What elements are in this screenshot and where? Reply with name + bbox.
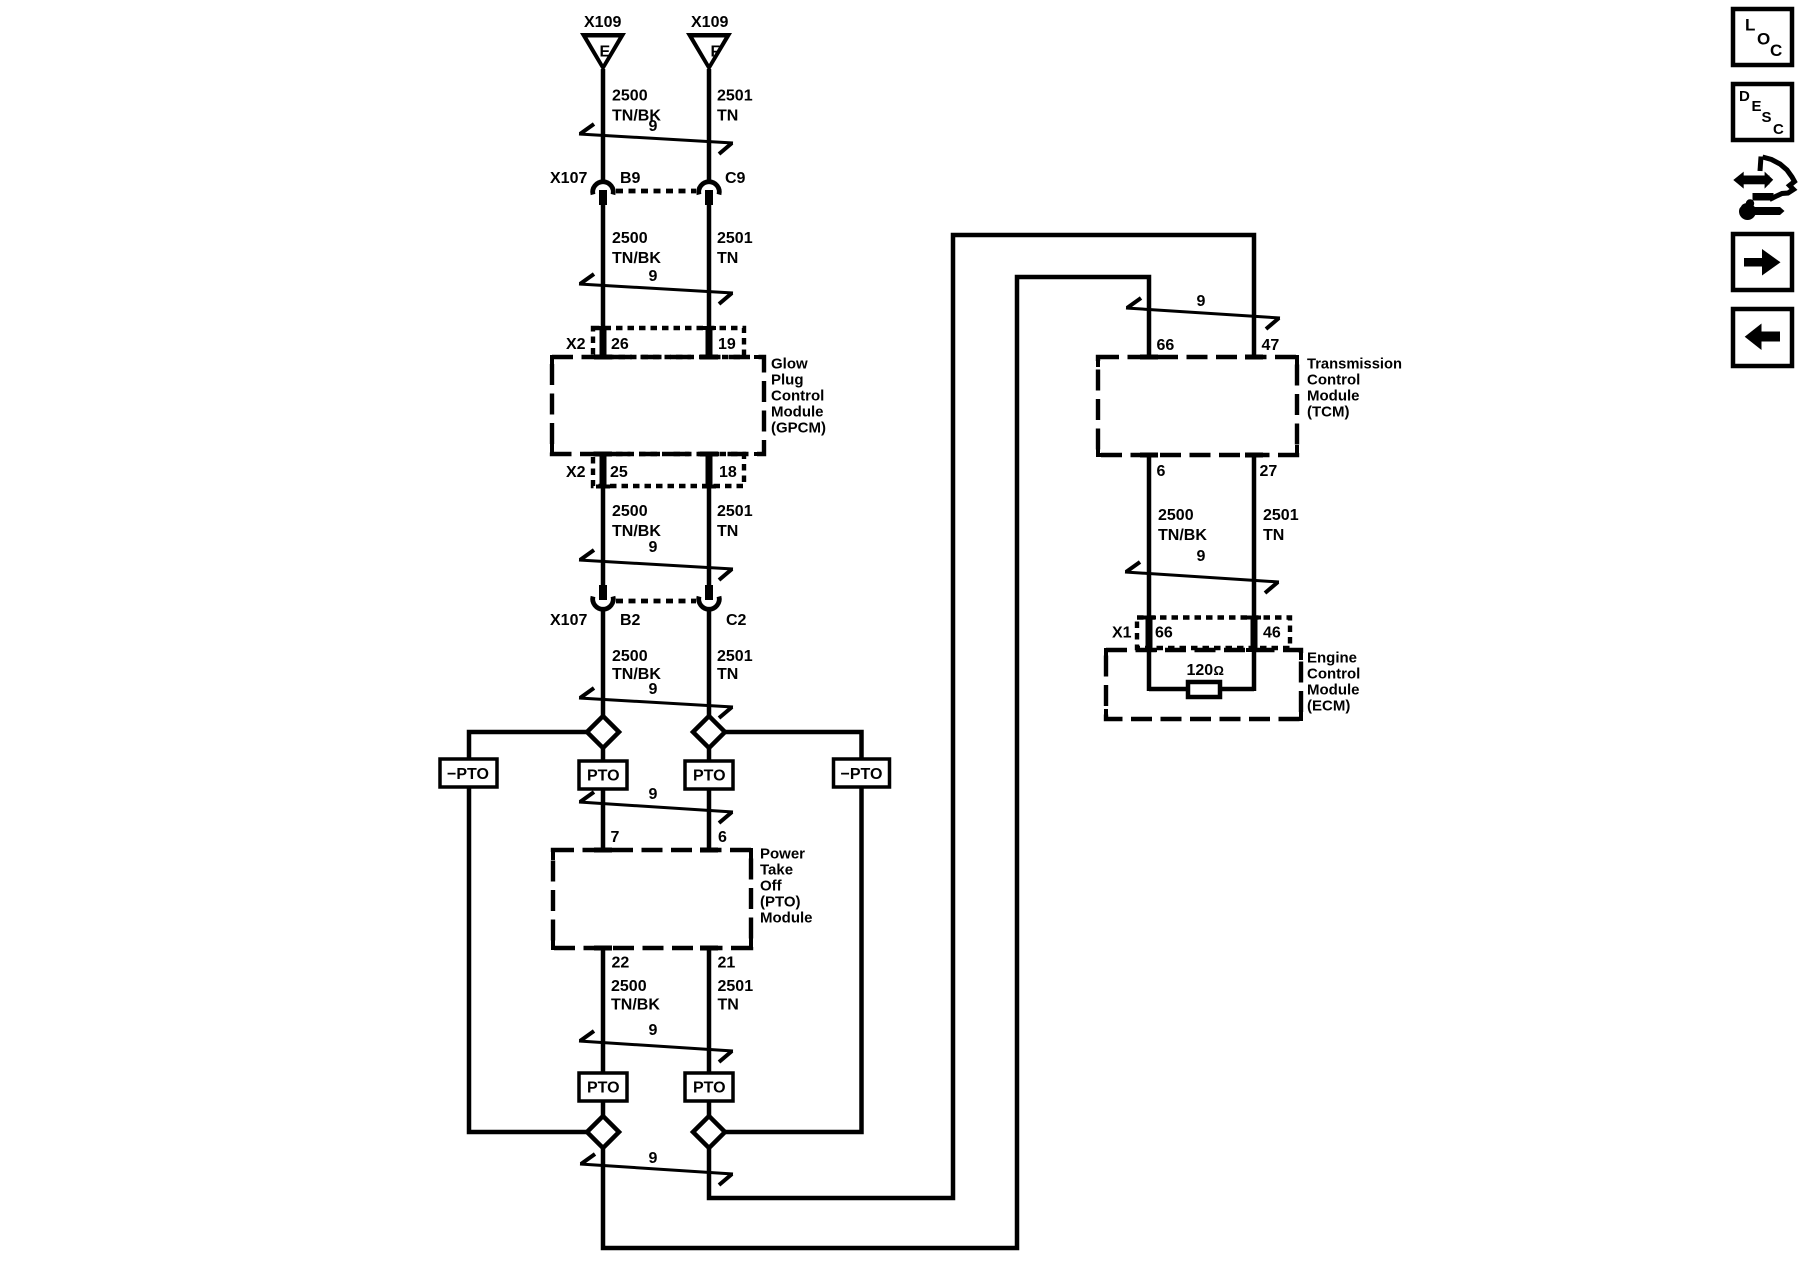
- wire: PTO box to PTO module pin 6: [707, 788, 712, 851]
- ECM corner marks: [1106, 650, 1301, 719]
- wire 2501 TN: PTO module pin 21 to lower PTO box: [707, 947, 712, 1074]
- connector X107-B2 socket arc: [593, 597, 614, 610]
- splice diamond: node S2 on 2501: [693, 716, 725, 748]
- tick: wire crossing GPCM pin box top (19): [702, 326, 716, 330]
- terminal T-bar GPCM pin 18: [700, 452, 718, 457]
- splice diamond: node S3 on 2500 lower: [587, 1116, 619, 1148]
- svg-text:X109: X109: [691, 14, 728, 31]
- twisted-pair symbol tp1: [579, 124, 733, 154]
- svg-text:PTO: PTO: [693, 1080, 726, 1097]
- svg-text:2501: 2501: [1263, 507, 1299, 524]
- svg-text:25: 25: [610, 464, 628, 481]
- svg-text:X109: X109: [584, 14, 621, 31]
- wire 2501 TN: X107-C2 to splice junction: [707, 609, 712, 717]
- wire: left splice to PTO switch box: [601, 747, 606, 762]
- svg-text:TN/BK: TN/BK: [611, 997, 660, 1014]
- GPCM corner marks: [552, 357, 764, 454]
- svg-text:Module: Module: [1307, 388, 1360, 405]
- wire pin stub: GPCM pin 26: [600, 328, 607, 357]
- tick: wire crossing ECM pin box top (66): [1142, 616, 1156, 620]
- svg-text:(ECM): (ECM): [1307, 698, 1350, 715]
- module box: Transmission Control Module (TCM): [1098, 357, 1297, 455]
- svg-text:27: 27: [1260, 463, 1278, 480]
- svg-text:C2: C2: [726, 612, 747, 629]
- wire 2501 TN: GPCM pin 18 to X107-C2: [707, 485, 712, 586]
- svg-text:2500: 2500: [611, 978, 647, 995]
- svg-text:Module: Module: [771, 404, 824, 421]
- icon jump/trace (double arrow, outline, wrench): [1731, 157, 1795, 221]
- svg-text:D: D: [1739, 88, 1750, 105]
- wire 2501 TN: X107-C9 to GPCM pin 19: [707, 205, 712, 329]
- svg-text:(TCM): (TCM): [1307, 404, 1349, 421]
- terminal T-bar TCM pin 27: [1245, 453, 1263, 458]
- icon box arrow right: [1733, 234, 1792, 290]
- wire 2500 TN/BK: X109-E to X107-B9: [601, 69, 606, 182]
- connector pin stub C9: [705, 190, 713, 205]
- wire 2501 TN: X109-F to X107-C9: [707, 69, 712, 182]
- twisted-pair symbol tp9: [1125, 562, 1279, 593]
- svg-text:L: L: [1745, 16, 1755, 35]
- wire 2500 TN/BK: X107-B2 to splice junction: [601, 609, 606, 717]
- svg-text:9: 9: [649, 681, 658, 698]
- svg-text:6: 6: [1157, 463, 1166, 480]
- svg-text:2500: 2500: [612, 88, 648, 105]
- icon box DESC: [1733, 84, 1792, 140]
- connector X107-B9 socket arc: [593, 182, 614, 195]
- twisted-pair symbol tp8: [1126, 298, 1280, 329]
- svg-text:X2: X2: [566, 464, 586, 481]
- wire pin stub: ECM pin 46: [1251, 617, 1258, 650]
- icon box LOC: [1733, 9, 1792, 65]
- module box: Glow Plug Control Module (GPCM): [552, 357, 764, 454]
- tick: wire crossing ECM module edge (46): [1246, 648, 1262, 652]
- svg-text:Control: Control: [771, 388, 824, 405]
- wire: right branch loop below -PTO down to lower splice row: [724, 786, 862, 1132]
- wire: lower PTO box to lower splice: [707, 1100, 712, 1117]
- svg-text:−PTO: −PTO: [841, 766, 883, 783]
- svg-text:C: C: [1770, 41, 1782, 60]
- svg-text:O: O: [1757, 30, 1770, 49]
- component box: PTO (lower left): [579, 1073, 627, 1101]
- terminal T-bar PTO module pin 22: [594, 946, 612, 951]
- module box: Power Take Off (PTO) Module: [553, 850, 751, 948]
- connector pin box: GPCM X2 bottom (pins 25,18): [593, 454, 744, 486]
- tick: wire crossing GPCM pin box bottom (25): [596, 485, 610, 489]
- svg-text:TN/BK: TN/BK: [612, 523, 661, 540]
- svg-text:TN: TN: [717, 250, 738, 267]
- connector X107 tie line (B9-C9): [616, 189, 696, 194]
- terminal T-bar GPCM pin 25: [594, 452, 612, 457]
- connector pin box: ECM X1 (pins 66,46): [1137, 618, 1290, 649]
- svg-text:Module: Module: [760, 910, 813, 927]
- terminal T-bar PTO module pin 7: [594, 848, 612, 853]
- svg-text:PTO: PTO: [693, 768, 726, 785]
- icon box arrow left: [1733, 309, 1792, 366]
- twisted-pair symbol tp6: [579, 1031, 733, 1062]
- svg-text:Module: Module: [1307, 682, 1360, 699]
- svg-text:2501: 2501: [717, 648, 753, 665]
- wire pin stub: GPCM pin 19: [706, 328, 713, 357]
- svg-text:Ω: Ω: [1214, 663, 1224, 678]
- wire: ECM pin 46 to terminating resistor: [1252, 648, 1257, 691]
- svg-text:B2: B2: [620, 612, 641, 629]
- svg-text:X107: X107: [550, 170, 587, 187]
- twisted-pair symbol tp3: [579, 550, 733, 580]
- connector pin stub C2: [705, 585, 713, 600]
- svg-text:C: C: [1773, 121, 1784, 138]
- terminal T-bar TCM pin 66: [1140, 355, 1158, 360]
- svg-text:TN: TN: [718, 997, 739, 1014]
- svg-text:Control: Control: [1307, 666, 1360, 683]
- svg-text:TN/BK: TN/BK: [1158, 527, 1207, 544]
- resistor R 120 ohm: [1188, 682, 1220, 697]
- wire: ECM pin 66 to terminating resistor: [1147, 648, 1152, 691]
- svg-text:2500: 2500: [612, 648, 648, 665]
- connector X107-C2 socket arc: [699, 597, 720, 610]
- wire pin stub: GPCM pin 25: [600, 454, 607, 486]
- component box: PTO (lower right): [685, 1073, 733, 1101]
- svg-text:B9: B9: [620, 170, 641, 187]
- svg-text:PTO: PTO: [587, 1080, 620, 1097]
- svg-text:Glow: Glow: [771, 356, 808, 373]
- svg-text:66: 66: [1157, 337, 1175, 354]
- svg-text:2501: 2501: [718, 978, 754, 995]
- connector X107 tie line (B2-C2): [616, 599, 696, 604]
- wire 2500 TN/BK: GPCM pin 25 to X107-B2: [601, 485, 606, 586]
- svg-text:21: 21: [718, 955, 736, 972]
- twisted-pair symbol tp2: [579, 274, 733, 304]
- tick: wire crossing ECM module edge (66): [1141, 648, 1157, 652]
- terminal T-bar GPCM pin 26: [594, 355, 612, 360]
- svg-text:C9: C9: [725, 170, 746, 187]
- svg-text:Take: Take: [760, 862, 793, 879]
- svg-text:2500: 2500: [1158, 507, 1194, 524]
- svg-text:9: 9: [649, 539, 658, 556]
- svg-text:9: 9: [1197, 548, 1206, 565]
- svg-text:26: 26: [611, 336, 629, 353]
- svg-text:9: 9: [649, 268, 658, 285]
- svg-text:TN/BK: TN/BK: [612, 250, 661, 267]
- wire pin stub: GPCM pin 18: [706, 454, 713, 486]
- svg-text:22: 22: [612, 955, 630, 972]
- svg-text:9: 9: [649, 1022, 658, 1039]
- svg-text:TN: TN: [717, 108, 738, 125]
- TCM corner marks: [1098, 357, 1297, 455]
- svg-text:TN: TN: [717, 666, 738, 683]
- wire: right branch loop via -PTO (upper horizontal + vertical): [725, 732, 862, 760]
- svg-text:Off: Off: [760, 878, 783, 895]
- wire 2501: lower splice long run to TCM pin 47: [709, 235, 1254, 1198]
- module box: Engine Control Module (ECM): [1106, 650, 1301, 719]
- svg-text:Plug: Plug: [771, 372, 804, 389]
- svg-text:X107: X107: [550, 612, 587, 629]
- connector pin box: GPCM X2 top (pins 26,19): [593, 328, 744, 357]
- svg-text:19: 19: [718, 336, 736, 353]
- svg-text:Control: Control: [1307, 372, 1360, 389]
- svg-text:Power: Power: [760, 846, 805, 863]
- wire: left branch loop below -PTO down to lower splice row: [469, 786, 588, 1132]
- wire 2500: lower splice long run to TCM pin 66: [603, 277, 1149, 1248]
- component box: -PTO (left): [440, 759, 497, 787]
- PTO module corner marks: [553, 850, 751, 948]
- wire: PTO box to PTO module pin 7: [601, 788, 606, 851]
- tick: wire crossing GPCM pin box top (26): [596, 326, 610, 330]
- svg-text:2501: 2501: [717, 503, 753, 520]
- svg-text:2500: 2500: [612, 230, 648, 247]
- svg-text:9: 9: [649, 786, 658, 803]
- connector pin stub B9: [599, 190, 607, 205]
- wire 2501 TN: TCM pin 27 to ECM pin 46: [1252, 455, 1257, 619]
- svg-text:9: 9: [649, 118, 658, 135]
- svg-text:7: 7: [611, 829, 620, 846]
- terminal T-bar PTO module pin 21: [700, 946, 718, 951]
- wire: resistor right lead: [1219, 687, 1254, 692]
- svg-text:2501: 2501: [717, 230, 753, 247]
- connector X109-F triangle: [686, 33, 732, 72]
- svg-text:120: 120: [1187, 662, 1214, 679]
- svg-text:(PTO): (PTO): [760, 894, 801, 911]
- terminal T-bar GPCM pin 19: [700, 355, 718, 360]
- svg-text:PTO: PTO: [587, 768, 620, 785]
- wire 2500 TN/BK: PTO module pin 22 to lower PTO box: [601, 947, 606, 1074]
- twisted-pair symbol tp5: [579, 792, 733, 823]
- svg-text:46: 46: [1263, 625, 1281, 642]
- connector pin stub B2: [599, 585, 607, 600]
- svg-text:E: E: [600, 44, 611, 61]
- component box: -PTO (right): [834, 759, 890, 787]
- svg-text:Transmission: Transmission: [1307, 356, 1402, 373]
- wire pin stub: ECM pin 66: [1146, 617, 1153, 650]
- component box: PTO switch (right, on 2501): [685, 761, 733, 789]
- svg-text:X1: X1: [1112, 625, 1132, 642]
- svg-text:TN: TN: [717, 523, 738, 540]
- terminal T-bar TCM pin 6: [1140, 453, 1158, 458]
- wire: resistor left lead: [1149, 687, 1189, 692]
- svg-text:18: 18: [719, 464, 737, 481]
- svg-text:66: 66: [1155, 625, 1173, 642]
- wire: right splice to PTO switch box: [707, 747, 712, 762]
- svg-text:(GPCM): (GPCM): [771, 420, 826, 437]
- svg-text:S: S: [1762, 109, 1772, 126]
- twisted-pair symbol tp4: [579, 688, 733, 718]
- twisted-pair symbol tp7: [580, 1154, 733, 1185]
- svg-text:−PTO: −PTO: [447, 766, 489, 783]
- wire 2500 TN/BK: TCM pin 6 to ECM pin 66: [1147, 455, 1152, 619]
- connector X109-E triangle: [580, 33, 626, 72]
- svg-text:9: 9: [1197, 293, 1206, 310]
- component box: PTO switch (left, on 2500): [579, 761, 627, 789]
- connector X107-C9 socket arc: [699, 182, 720, 195]
- wire: left branch loop via -PTO (upper horizontal + vertical): [469, 732, 587, 760]
- svg-text:9: 9: [649, 1150, 658, 1167]
- svg-text:TN: TN: [1263, 527, 1284, 544]
- splice diamond: node S1 on 2500: [587, 716, 619, 748]
- svg-text:6: 6: [718, 829, 727, 846]
- svg-text:2501: 2501: [717, 88, 753, 105]
- splice diamond: node S4 on 2501 lower: [693, 1116, 725, 1148]
- svg-text:F: F: [711, 44, 721, 61]
- svg-text:E: E: [1752, 98, 1762, 115]
- terminal T-bar PTO module pin 6: [700, 848, 718, 853]
- wire 2500 TN/BK: X107-B9 to GPCM pin 26: [601, 205, 606, 329]
- tick: wire crossing ECM pin box top (46): [1247, 616, 1261, 620]
- svg-text:2500: 2500: [612, 503, 648, 520]
- terminal T-bar TCM pin 47: [1245, 355, 1263, 360]
- svg-text:X2: X2: [566, 336, 586, 353]
- tick: wire crossing GPCM pin box bottom (18): [702, 485, 716, 489]
- wire: lower PTO box to lower splice: [601, 1100, 606, 1117]
- svg-text:Engine: Engine: [1307, 650, 1357, 667]
- svg-text:47: 47: [1262, 337, 1280, 354]
